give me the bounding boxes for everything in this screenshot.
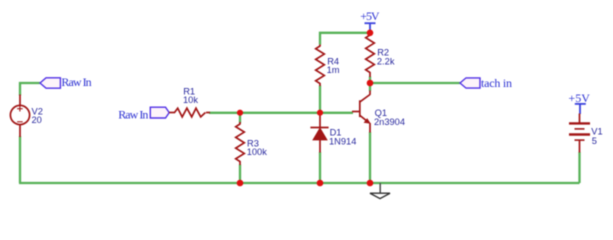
svg-text:1m: 1m (327, 65, 340, 75)
junction rail at emitter / ground (367, 180, 374, 187)
power flag +5V (top) (365, 23, 376, 33)
wire R4 top rail (320, 33, 370, 45)
wire V2 top to Raw In flag (20, 83, 40, 96)
svg-text:Raw In: Raw In (118, 107, 148, 121)
wire bottom rail (19, 182, 580, 184)
svg-text:2.2k: 2.2k (377, 57, 395, 67)
wire base net R1 to Q1 base (209, 112, 353, 114)
flag Raw In (output, left) (40, 78, 60, 88)
wire R2 bottom lead to node (369, 77, 371, 84)
wire emitter to rail (369, 132, 371, 183)
ground (370, 183, 390, 199)
svg-text:10k: 10k (183, 95, 198, 105)
junction base net at R3 (237, 110, 243, 116)
svg-text:tach in: tach in (481, 76, 512, 90)
svg-text:20: 20 (32, 115, 42, 125)
wire R4 bottom to base net (319, 86, 321, 113)
junction rail at R3 (237, 180, 244, 187)
svg-text:5: 5 (592, 136, 597, 146)
junction R2 bottom / collector / tach in (367, 80, 374, 87)
svg-text:100k: 100k (247, 147, 268, 157)
transistor Q1 (352, 91, 371, 133)
voltage source V2 (10, 95, 29, 138)
power flag +5V (right) (575, 104, 586, 114)
junction rail at D1 (317, 180, 324, 187)
resistor R3 (236, 122, 245, 165)
resistor R4 (316, 45, 325, 87)
svg-text:Raw In: Raw In (61, 75, 91, 89)
wire D1 bottom to rail (319, 152, 321, 183)
junction at +5V / R2 / R4 rail (367, 30, 374, 37)
flag Raw In (input, feeds R1) (150, 107, 169, 118)
diode D1 (310, 113, 328, 153)
resistor R2 (366, 33, 375, 77)
flag tach in (460, 78, 480, 88)
wire V1 bottom to rail (578, 152, 580, 183)
wire collector stub (369, 83, 371, 91)
wire R3 bottom to rail (239, 165, 241, 184)
svg-text:+5V: +5V (568, 91, 590, 105)
svg-text:1N914: 1N914 (329, 137, 356, 147)
svg-text:+5V: +5V (360, 9, 380, 23)
svg-text:V1: V1 (591, 126, 602, 136)
svg-text:2n3904: 2n3904 (374, 117, 405, 127)
resistor R1 (169, 108, 210, 117)
wire V2 bottom to rail (19, 136, 21, 183)
junction base net at R4 / D1 (317, 110, 323, 116)
wire R2 bottom node to tach in flag (370, 82, 460, 84)
battery V1 (569, 114, 590, 153)
wire R3 top (239, 113, 241, 124)
